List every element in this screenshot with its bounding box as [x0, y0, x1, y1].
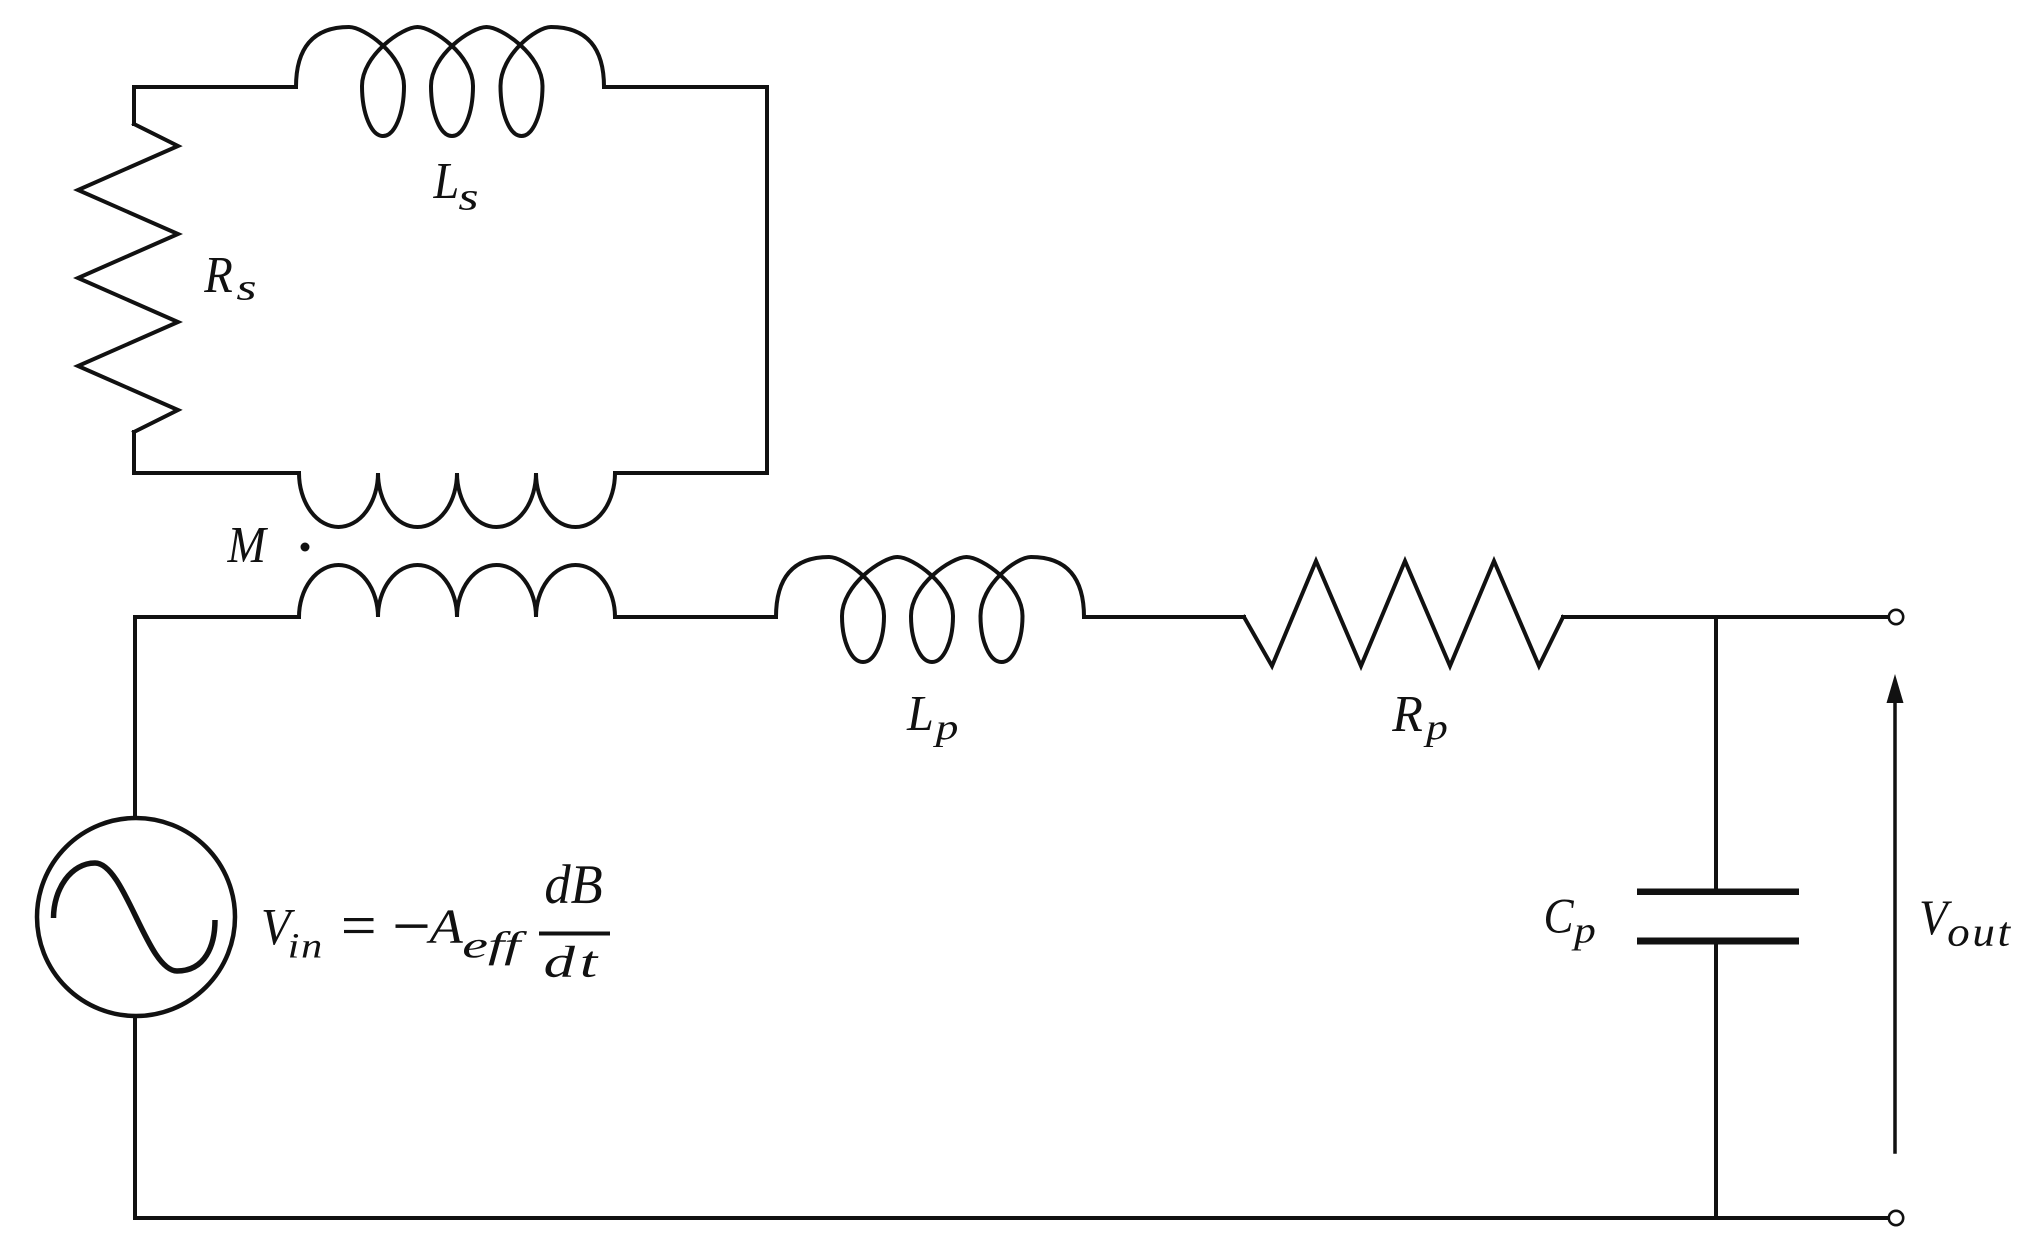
formula equals sign — [344, 918, 374, 921]
wire secondary winding to right vertical — [615, 471, 767, 475]
formula minus sign — [396, 924, 428, 928]
capacitor C_p bottom plate — [1637, 938, 1799, 945]
wire top-left of secondary loop — [134, 87, 296, 124]
formula dt — [545, 946, 598, 977]
wire L_s to right vertical of loop — [604, 87, 767, 473]
wire L_p to R_p — [1084, 615, 1244, 619]
label M — [227, 528, 268, 562]
wire source top to primary winding — [135, 617, 299, 818]
output terminal top — [1889, 610, 1903, 624]
resistor R_s — [78, 124, 178, 432]
label L_p sub p — [933, 722, 957, 747]
wire primary winding to L_p — [615, 615, 776, 619]
label L_s sub s — [459, 191, 477, 210]
formula fraction bar — [539, 932, 610, 936]
transformer dot marker — [301, 543, 310, 552]
V_out arrow shaft — [1893, 700, 1897, 1152]
formula dB — [546, 864, 602, 903]
wire output node down to C_p — [1714, 617, 1718, 889]
source circle V_in — [37, 818, 235, 1016]
wire R_p to output node and top terminal — [1563, 615, 1888, 619]
label R_p sub p — [1423, 722, 1446, 747]
label C_p sub p — [1571, 925, 1594, 951]
inductor L_s — [296, 27, 604, 136]
label V_out sub out — [1949, 922, 2011, 946]
sine wave inside source — [54, 863, 216, 971]
formula sub eff — [464, 931, 527, 965]
output terminal bottom — [1889, 1211, 1903, 1225]
formula V_in V — [264, 910, 295, 945]
wire R_s bottom lead to secondary winding — [134, 432, 299, 473]
formula V_in sub in — [290, 934, 321, 957]
V_out arrowhead — [1887, 674, 1904, 703]
wire C_p to bottom rail — [1714, 943, 1718, 1218]
wire source bottom and bottom rail — [135, 1016, 1888, 1218]
label L_s — [433, 164, 457, 198]
label R_s sub s — [237, 282, 255, 300]
label R_p — [1392, 697, 1422, 731]
inductor L_p — [776, 557, 1084, 662]
label V_out — [1922, 901, 1953, 935]
label L_p — [906, 697, 931, 730]
resistor R_p — [1244, 561, 1563, 666]
capacitor C_p top plate — [1637, 889, 1799, 896]
label R_s — [204, 258, 232, 292]
transformer primary winding (M) — [299, 565, 615, 617]
formula A — [426, 910, 462, 942]
label C_p — [1546, 900, 1574, 934]
transformer secondary winding (M) — [299, 473, 615, 527]
